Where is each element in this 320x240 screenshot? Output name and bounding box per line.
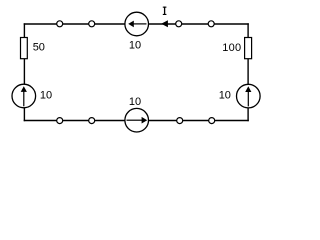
wire top [24, 23, 249, 25]
node bottom 1 [57, 118, 63, 124]
svg-text:100: 100 [222, 42, 241, 54]
wire left [23, 23, 25, 121]
node top 1 [57, 21, 63, 27]
svg-text:10: 10 [129, 96, 141, 108]
current source top (arrow left) [125, 12, 149, 36]
current source bottom-middle (arrow right) [125, 108, 149, 132]
wire right [247, 23, 249, 121]
node top 4 [208, 21, 214, 27]
current source bottom-left (arrow up) [12, 84, 36, 108]
node bottom 3 [177, 118, 183, 124]
label I [163, 7, 167, 15]
node top 2 [89, 21, 95, 27]
node top 3 [176, 21, 182, 27]
svg-text:50: 50 [33, 42, 45, 54]
current direction arrow I [161, 20, 168, 27]
node bottom 4 [209, 118, 215, 124]
resistor 50 [21, 38, 28, 59]
wire bottom [24, 120, 249, 122]
resistor 100 [245, 38, 252, 59]
svg-text:10: 10 [40, 90, 52, 102]
current source bottom-right (arrow up) [237, 84, 261, 108]
node bottom 2 [89, 118, 95, 124]
svg-text:10: 10 [129, 40, 141, 52]
svg-text:10: 10 [219, 90, 231, 102]
